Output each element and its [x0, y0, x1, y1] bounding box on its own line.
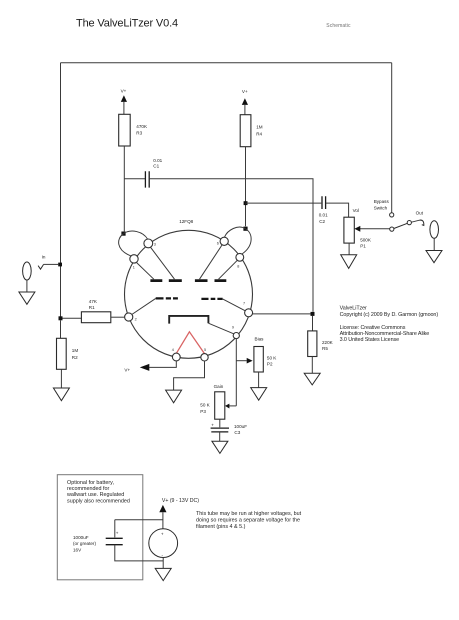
pin 8 [236, 253, 244, 261]
pin 9 [233, 333, 239, 339]
svg-text:50 K: 50 K [267, 356, 277, 361]
power V+ arrow R4 [242, 89, 248, 115]
wire pin1 to plate [137, 263, 154, 280]
jack In sleeve [23, 262, 32, 280]
capacitor C1 [124, 158, 162, 187]
svg-text:Optional for battery,: Optional for battery, [67, 480, 114, 486]
svg-text:R2: R2 [72, 355, 78, 360]
svg-text:-: - [162, 553, 164, 558]
svg-text:50 K: 50 K [200, 403, 210, 408]
wire grid to pin7 [223, 299, 246, 311]
pin 3 [144, 239, 153, 248]
svg-text:V+: V+ [121, 89, 127, 94]
ground C3 [212, 441, 228, 453]
power V+ arrow battery [159, 498, 199, 529]
svg-text:Attribution-Noncommercial-Shar: Attribution-Noncommercial-Share Alike [340, 331, 430, 337]
ground pin5 [166, 390, 182, 403]
wire pin7 to junction [253, 313, 311, 315]
capacitor C3 [211, 422, 248, 435]
svg-text:3: 3 [154, 243, 156, 247]
grid right [201, 298, 222, 300]
svg-text:Bypass: Bypass [374, 199, 390, 204]
filament heater (red) [176, 332, 204, 354]
wire R2 to ground [60, 369, 62, 388]
svg-text:12FQ8: 12FQ8 [179, 219, 193, 224]
svg-text:3.0 United States License: 3.0 United States License [340, 337, 400, 343]
ground battery [155, 568, 171, 580]
node R5 junction [311, 312, 315, 316]
svg-text:R1: R1 [89, 305, 95, 310]
wire pin2 to grid [132, 298, 156, 314]
node C2 junction [244, 201, 248, 205]
svg-text:8: 8 [237, 264, 239, 268]
svg-text:R3: R3 [136, 131, 142, 136]
svg-text:ValveLiTzer: ValveLiTzer [340, 305, 367, 311]
svg-text:1M: 1M [256, 125, 263, 130]
wire R1 to pin2 [111, 316, 125, 318]
svg-text:recommended for: recommended for [67, 486, 109, 492]
svg-text:Bias: Bias [255, 337, 265, 342]
svg-text:470K: 470K [136, 124, 148, 129]
svg-text:V+: V+ [124, 368, 130, 373]
wire junction to R1 [63, 317, 82, 318]
license text [340, 305, 439, 343]
wire junction to R2 [60, 320, 62, 338]
wire plate loop left [119, 231, 148, 256]
svg-text:47K: 47K [89, 299, 98, 304]
svg-text:500K: 500K [360, 238, 372, 243]
svg-text:Schematic: Schematic [326, 23, 351, 29]
power V+ arrow pin4 [124, 361, 176, 373]
resistor R4 [240, 115, 263, 147]
svg-text:filament (pins 4 & 5.): filament (pins 4 & 5.) [196, 524, 246, 530]
wire pin6 to plate [200, 245, 223, 279]
wire P2 to ground [258, 372, 260, 388]
svg-text:supply also recommended: supply also recommended [67, 498, 130, 504]
wire R4 down to plate loop [245, 147, 247, 227]
wire junction to R5 [312, 316, 314, 331]
node plate loop right [243, 227, 247, 231]
wire junction to C2 [246, 202, 322, 204]
svg-text:wallwart use. Regulated: wallwart use. Regulated [66, 492, 124, 498]
wire P1 to ground [348, 243, 350, 255]
jack tip In [38, 264, 44, 269]
wire jack In to ground [26, 280, 28, 292]
cathode [169, 316, 208, 324]
ground Out [426, 251, 442, 263]
tube 12FQ8 envelope [125, 230, 253, 358]
wire pin8 to plate [219, 260, 238, 279]
svg-text:Copyright (c) 2009 By D. Garmo: Copyright (c) 2009 By D. Garmon (gmoon) [340, 312, 439, 318]
svg-text:doing so requires a separate v: doing so requires a separate voltage for… [196, 517, 300, 523]
wire battery to ground [162, 558, 164, 569]
pin 1 [130, 255, 138, 263]
wire top frame [61, 62, 392, 64]
wiper arrow P2 [236, 360, 247, 362]
wire switch to Out jack tip [411, 220, 419, 222]
wire R3 to plate loop [123, 146, 125, 231]
wire P3 to C3 [219, 419, 221, 427]
svg-text:Switch: Switch [374, 205, 388, 210]
svg-text:(or greater): (or greater) [73, 541, 96, 546]
resistor R1 [81, 299, 110, 323]
resistor R2 [57, 338, 79, 369]
potentiometer P3 [200, 384, 225, 419]
potentiometer P2 [254, 337, 277, 372]
switch bypass [374, 199, 412, 231]
potentiometer P1 [344, 208, 372, 249]
pin 2 [125, 313, 133, 321]
svg-text:2: 2 [135, 318, 137, 322]
resistor R5 [308, 331, 334, 357]
svg-text:1: 1 [133, 265, 135, 269]
wire cathode to pin9 [208, 323, 233, 334]
wiper arrow P1 [360, 228, 390, 230]
svg-text:C2: C2 [319, 219, 325, 224]
svg-text:C1: C1 [153, 164, 159, 169]
wire left rail [60, 63, 62, 319]
svg-text:The ValveLiTzer V0.4: The ValveLiTzer V0.4 [76, 17, 178, 29]
svg-text:16V: 16V [73, 548, 82, 553]
wire bypass vertical [391, 63, 393, 213]
ground R5 [304, 373, 320, 385]
svg-text:V+: V+ [242, 89, 248, 94]
svg-text:C3: C3 [234, 430, 240, 435]
wire C1 to right column [149, 179, 313, 312]
wire In to junction [44, 263, 59, 265]
svg-text:Out: Out [416, 210, 424, 215]
svg-text:R4: R4 [256, 131, 262, 136]
svg-text:220K: 220K [322, 340, 334, 345]
resistor R3 [119, 114, 148, 146]
svg-text:9: 9 [232, 325, 234, 329]
note text filament [196, 511, 302, 530]
node R1 junction [59, 316, 63, 320]
svg-text:7: 7 [243, 301, 245, 305]
svg-text:In: In [42, 255, 46, 260]
svg-text:License: Creative Commons: License: Creative Commons [340, 325, 406, 331]
wiper arrow P3 [229, 405, 236, 407]
pin 7 [245, 309, 253, 317]
svg-text:P3: P3 [200, 409, 206, 414]
capacitor C2 [319, 196, 328, 224]
svg-text:1M: 1M [72, 348, 79, 353]
svg-text:+: + [116, 531, 119, 536]
jack Out sleeve [430, 221, 439, 239]
wire pin5 to ground [174, 361, 205, 390]
wire R5 to ground [311, 357, 313, 374]
ground P1 [341, 255, 357, 269]
svg-text:Vol: Vol [353, 208, 359, 213]
svg-text:R5: R5 [322, 346, 328, 351]
capacitor C4 (1000uF) [73, 520, 163, 561]
wire C2 to P1 [326, 203, 349, 217]
ground R2 [53, 388, 69, 401]
svg-text:5: 5 [204, 348, 206, 352]
svg-text:P1: P1 [360, 244, 366, 249]
svg-text:1000uF: 1000uF [73, 535, 89, 540]
triode plate bars left [150, 279, 181, 282]
wire pin3 to plate [151, 247, 175, 279]
svg-text:P2: P2 [267, 362, 273, 367]
jack tip Out [419, 220, 423, 225]
pin 4 [172, 353, 180, 361]
svg-text:+: + [211, 422, 214, 427]
battery source B1 [149, 529, 178, 558]
power V+ arrow R3 [121, 89, 127, 115]
svg-text:This tube may be run at higher: This tube may be run at higher voltages,… [196, 511, 302, 517]
svg-text:100uF: 100uF [234, 424, 247, 429]
wire pin9 down [235, 339, 237, 406]
wire jack Out to ground [433, 238, 435, 250]
pin 6 [220, 237, 228, 245]
svg-text:4: 4 [172, 348, 174, 352]
ground P2 [251, 388, 267, 401]
svg-text:Gain: Gain [214, 384, 224, 389]
node In junction [58, 263, 62, 267]
wire plate loop right [224, 227, 251, 254]
pin 5 [201, 354, 208, 361]
triode plate bars right [195, 279, 226, 282]
svg-text:V+ (9 - 13V DC): V+ (9 - 13V DC) [162, 498, 199, 504]
svg-text:6: 6 [217, 241, 219, 245]
ground In [19, 292, 35, 304]
node plate loop left [121, 232, 125, 236]
grid left [156, 297, 178, 299]
wire C3 to ground [219, 432, 221, 441]
svg-text:0.01: 0.01 [153, 158, 162, 163]
wire C4 to V+ stem [115, 519, 163, 521]
svg-text:0.01: 0.01 [319, 213, 328, 218]
note box [57, 475, 143, 580]
svg-text:+: + [161, 531, 164, 536]
